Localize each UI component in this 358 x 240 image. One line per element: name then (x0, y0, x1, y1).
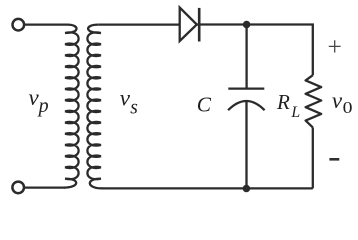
capacitor C top plate (228, 87, 264, 89)
transformer secondary winding (87, 25, 102, 189)
diode D1 cathode bar (198, 8, 201, 42)
svg-text:RL: RL (276, 90, 300, 121)
junction dot bottom (243, 185, 251, 193)
bottom rail secondary to right (101, 187, 313, 189)
right rail bottom (312, 127, 314, 188)
capacitor C curved plate (228, 101, 265, 110)
minus sign (329, 158, 339, 161)
svg-text:0: 0 (343, 99, 353, 117)
wire bottom-left (24, 186, 65, 188)
diode D1 triangle (180, 8, 197, 42)
plus sign (329, 40, 341, 52)
capacitor C top lead (245, 25, 247, 88)
capacitor C bottom lead (245, 102, 247, 189)
junction dot top (243, 21, 251, 29)
wire secondary top to diode anode (98, 23, 179, 25)
svg-text:vs: vs (120, 86, 138, 119)
terminal top-left (12, 19, 24, 31)
svg-text:v: v (332, 88, 343, 113)
terminal bottom-left (12, 182, 24, 194)
wire diode to top-right corner and right rail top (197, 25, 313, 76)
wire top-left (24, 23, 67, 25)
transformer primary winding (64, 25, 79, 188)
resistor RL zigzag (306, 75, 322, 127)
svg-text:vp: vp (29, 85, 49, 117)
svg-text:C: C (197, 93, 212, 117)
